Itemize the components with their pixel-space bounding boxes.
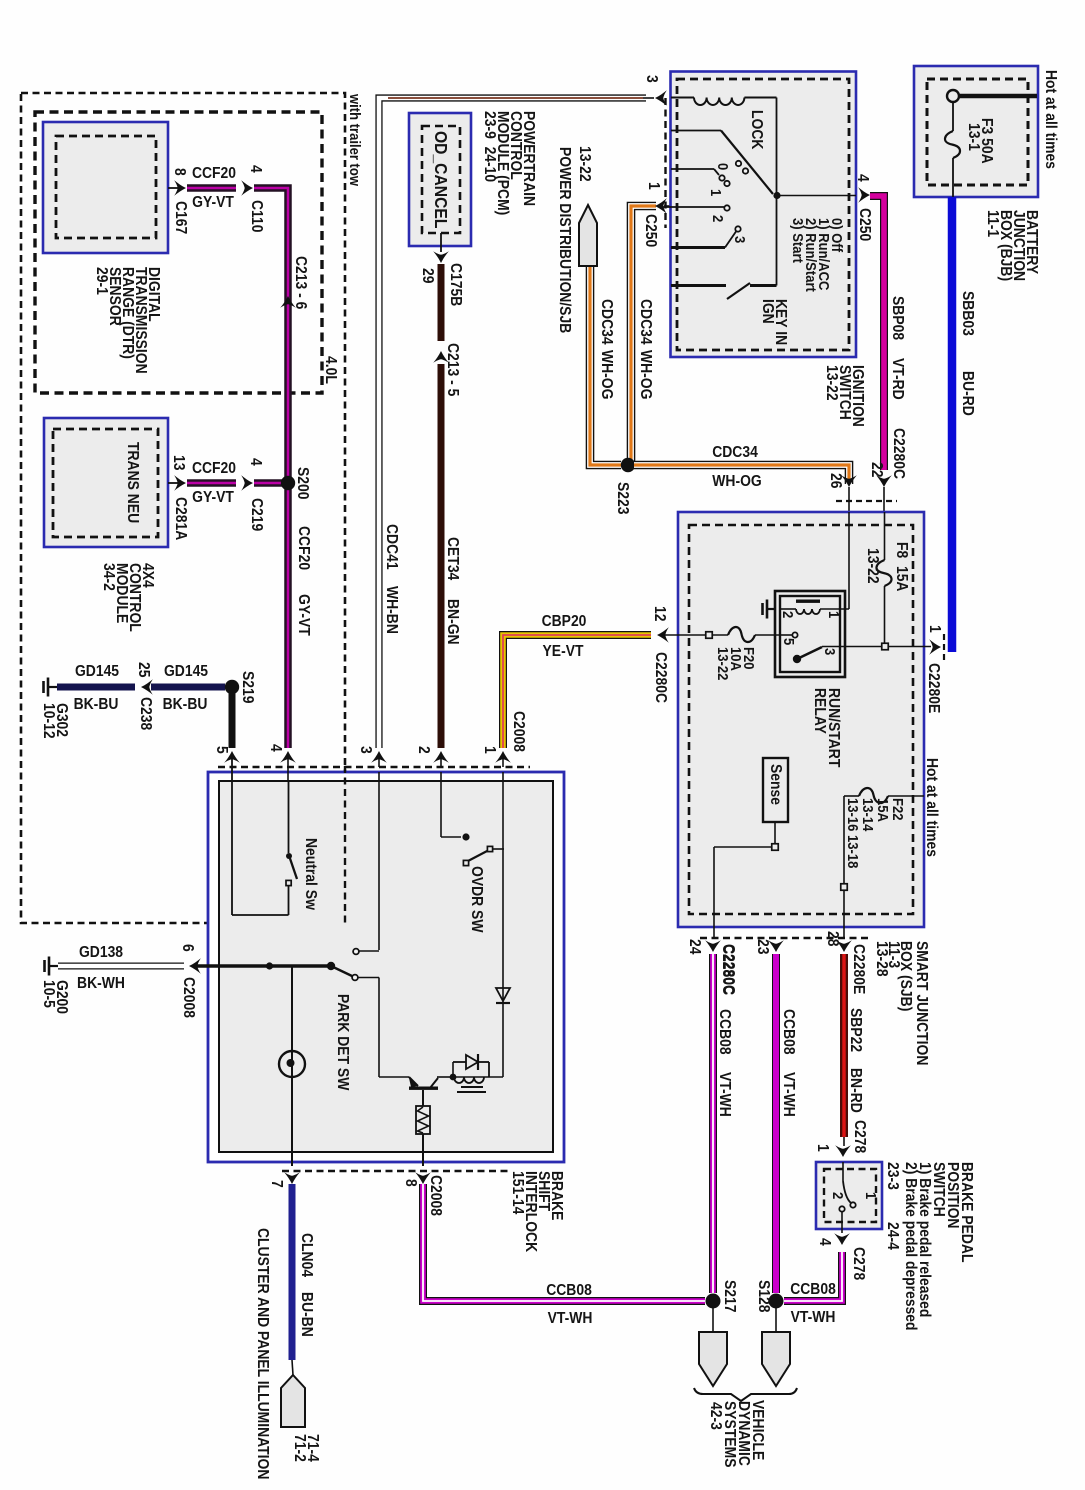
svg-text:Neutral Sw: Neutral Sw <box>302 838 320 910</box>
svg-text:CCF20: CCF20 <box>192 164 236 182</box>
svg-text:POWER DISTRIBUTION/SJB: POWER DISTRIBUTION/SJB <box>556 147 574 333</box>
svg-text:VT-WH: VT-WH <box>780 1072 798 1117</box>
svg-text:1: 1 <box>645 182 663 190</box>
svg-text:10-12: 10-12 <box>40 703 58 739</box>
svg-text:C2280C: C2280C <box>890 428 908 479</box>
svg-text:C278: C278 <box>851 1120 869 1153</box>
svg-text:WH-BN: WH-BN <box>383 586 401 634</box>
svg-text:CDC34: CDC34 <box>637 299 655 345</box>
svg-text:3: 3 <box>822 648 839 655</box>
svg-text:RELAY: RELAY <box>811 688 829 734</box>
svg-text:C110: C110 <box>248 200 266 232</box>
svg-text:C2280E: C2280E <box>850 944 868 994</box>
svg-text:BK-BU: BK-BU <box>163 695 208 713</box>
svg-text:BK-BU: BK-BU <box>74 695 119 713</box>
svg-text:42-3: 42-3 <box>707 1402 725 1430</box>
svg-text:C2008: C2008 <box>510 711 528 752</box>
svg-text:PARK DET SW: PARK DET SW <box>334 994 352 1091</box>
svg-text:11-1: 11-1 <box>984 210 1002 237</box>
svg-text:IGN: IGN <box>759 299 777 324</box>
svg-text:S128: S128 <box>755 1280 773 1312</box>
svg-text:S219: S219 <box>239 671 257 703</box>
svg-text:13-22: 13-22 <box>576 146 594 182</box>
svg-text:13-22: 13-22 <box>864 548 882 584</box>
svg-text:CBP20: CBP20 <box>542 612 587 630</box>
svg-text:3) Start: 3) Start <box>790 218 807 263</box>
svg-text:Hot at all times: Hot at all times <box>923 758 941 857</box>
svg-text:3: 3 <box>732 236 749 243</box>
svg-text:5: 5 <box>213 746 231 754</box>
svg-text:S217: S217 <box>721 1280 739 1312</box>
svg-text:4: 4 <box>247 165 265 173</box>
svg-text:GD145: GD145 <box>75 662 119 680</box>
svg-text:BU-RD: BU-RD <box>959 371 977 416</box>
svg-text:BN-GN: BN-GN <box>444 599 462 645</box>
svg-text:4.0L: 4.0L <box>322 356 340 384</box>
svg-text:VT-RD: VT-RD <box>889 358 907 400</box>
svg-text:CLN04: CLN04 <box>298 1233 316 1278</box>
svg-text:LOCK: LOCK <box>748 110 766 150</box>
svg-text:13-1: 13-1 <box>965 123 983 151</box>
svg-text:C167: C167 <box>172 201 190 234</box>
svg-text:VT-WH: VT-WH <box>791 1308 836 1326</box>
svg-text:GY-VT: GY-VT <box>295 594 313 636</box>
svg-text:CCF20: CCF20 <box>295 526 313 570</box>
svg-text:1: 1 <box>926 625 944 633</box>
svg-text:2: 2 <box>830 1192 847 1199</box>
svg-text:13-16 13-18: 13-16 13-18 <box>845 798 862 868</box>
svg-text:S200: S200 <box>294 467 312 499</box>
svg-text:C281A: C281A <box>172 497 190 540</box>
svg-text:OVDR SW: OVDR SW <box>468 866 486 933</box>
svg-text:SBB03: SBB03 <box>959 291 977 336</box>
svg-text:24: 24 <box>686 939 704 955</box>
svg-text:8: 8 <box>402 1179 420 1187</box>
svg-text:1: 1 <box>814 1144 832 1152</box>
svg-text:C278: C278 <box>850 1247 868 1280</box>
svg-text:34-2: 34-2 <box>100 563 118 591</box>
svg-text:1: 1 <box>826 611 843 618</box>
svg-text:24-4: 24-4 <box>884 1222 902 1250</box>
svg-text:2: 2 <box>415 746 433 754</box>
svg-text:C213 - 5: C213 - 5 <box>444 343 462 396</box>
svg-text:S223: S223 <box>614 482 632 514</box>
svg-text:GD145: GD145 <box>164 662 208 680</box>
svg-text:C2280C: C2280C <box>720 944 738 995</box>
svg-text:26: 26 <box>827 473 845 488</box>
svg-text:C250: C250 <box>856 208 874 241</box>
svg-text:0: 0 <box>715 163 732 170</box>
svg-text:22: 22 <box>868 462 886 477</box>
svg-text:GD138: GD138 <box>79 943 123 961</box>
svg-text:CCB08: CCB08 <box>790 1280 836 1298</box>
svg-text:4: 4 <box>247 458 265 466</box>
svg-text:CET34: CET34 <box>444 537 462 581</box>
svg-text:C2008: C2008 <box>427 1175 445 1216</box>
svg-text:71-4: 71-4 <box>304 1434 322 1462</box>
svg-text:BU-BN: BU-BN <box>298 1292 316 1337</box>
svg-text:4: 4 <box>816 1238 834 1246</box>
svg-text:CCB08: CCB08 <box>780 1009 798 1055</box>
svg-text:2: 2 <box>780 611 797 618</box>
svg-text:C2280C: C2280C <box>652 652 670 703</box>
svg-text:Hot at all times: Hot at all times <box>1042 70 1060 169</box>
svg-text:29-1: 29-1 <box>93 267 111 295</box>
svg-text:CCF20: CCF20 <box>192 459 236 477</box>
svg-text:with trailer tow: with trailer tow <box>347 93 364 186</box>
svg-text:VT-WH: VT-WH <box>716 1072 734 1117</box>
svg-text:C219: C219 <box>248 498 266 531</box>
svg-text:CDC34: CDC34 <box>598 299 616 345</box>
svg-text:Sense: Sense <box>767 764 785 805</box>
svg-text:13-28: 13-28 <box>873 941 891 977</box>
svg-text:23-3: 23-3 <box>884 1162 902 1190</box>
svg-text:151-14: 151-14 <box>509 1171 527 1215</box>
svg-text:SBP22: SBP22 <box>847 1008 865 1052</box>
svg-text:CDC41: CDC41 <box>383 524 401 570</box>
svg-text:29: 29 <box>419 268 437 283</box>
svg-text:CDC34: CDC34 <box>712 443 758 461</box>
svg-text:3: 3 <box>357 746 375 754</box>
svg-text:28: 28 <box>824 931 842 946</box>
svg-text:WH-OG: WH-OG <box>637 350 655 399</box>
svg-text:F8 15A: F8 15A <box>893 542 911 592</box>
svg-text:25: 25 <box>135 662 153 677</box>
svg-text:8: 8 <box>171 168 189 176</box>
svg-text:2: 2 <box>710 215 727 222</box>
svg-text:3: 3 <box>643 75 661 83</box>
svg-text:WH-OG: WH-OG <box>712 472 761 490</box>
svg-text:OD_CANCEL: OD_CANCEL <box>431 131 451 228</box>
svg-text:C175B: C175B <box>447 263 465 306</box>
svg-text:C2280E: C2280E <box>925 663 943 713</box>
svg-text:23: 23 <box>754 939 772 954</box>
svg-text:YE-VT: YE-VT <box>543 642 584 660</box>
svg-text:12: 12 <box>651 606 669 621</box>
svg-text:BK-WH: BK-WH <box>77 974 125 992</box>
svg-text:7: 7 <box>268 1180 286 1188</box>
svg-text:13-22: 13-22 <box>823 365 841 401</box>
svg-text:CCB08: CCB08 <box>716 1009 734 1055</box>
svg-text:13-22: 13-22 <box>715 647 732 681</box>
svg-text:6: 6 <box>179 944 197 952</box>
svg-text:C238: C238 <box>137 697 155 730</box>
svg-text:C250: C250 <box>642 214 660 247</box>
svg-text:10-5: 10-5 <box>40 980 58 1008</box>
svg-text:CLUSTER AND PANEL ILLUMINATION: CLUSTER AND PANEL ILLUMINATION <box>254 1228 272 1479</box>
svg-text:SBP08: SBP08 <box>889 296 907 340</box>
svg-text:2) Brake pedal depressed: 2) Brake pedal depressed <box>902 1162 920 1331</box>
svg-text:C2008: C2008 <box>180 977 198 1018</box>
svg-text:CCB08: CCB08 <box>546 1281 592 1299</box>
svg-text:VT-WH: VT-WH <box>548 1309 593 1327</box>
svg-text:4: 4 <box>854 174 872 182</box>
svg-text:23-9 24-10: 23-9 24-10 <box>481 111 499 182</box>
svg-text:BN-RD: BN-RD <box>847 1068 865 1113</box>
svg-text:GY-VT: GY-VT <box>192 193 234 211</box>
svg-text:1: 1 <box>481 746 499 754</box>
svg-text:GY-VT: GY-VT <box>192 488 234 506</box>
svg-text:TRANS NEU: TRANS NEU <box>124 442 142 523</box>
svg-text:5: 5 <box>781 638 798 645</box>
svg-text:WH-OG: WH-OG <box>598 350 616 399</box>
svg-text:1: 1 <box>863 1192 880 1199</box>
svg-text:4: 4 <box>267 744 285 752</box>
svg-text:1: 1 <box>708 189 725 196</box>
svg-text:C213 - 6: C213 - 6 <box>292 256 310 309</box>
svg-text:13: 13 <box>170 455 188 470</box>
